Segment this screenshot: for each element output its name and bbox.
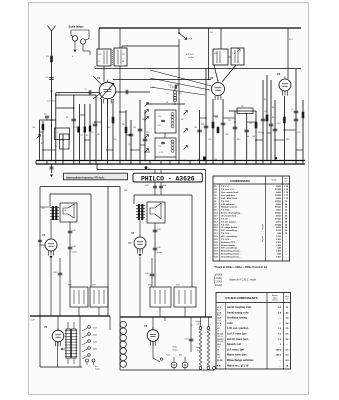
svg-text:R8: R8	[142, 119, 144, 121]
svg-text:C23: C23	[264, 111, 267, 113]
svg-text:C5-6: C5-6	[217, 320, 221, 322]
svg-text:C25: C25	[297, 132, 300, 134]
svg-text:N23: N23	[167, 355, 170, 357]
svg-text:Res: Res	[197, 350, 200, 352]
svg-text:R11: R11	[215, 117, 218, 119]
svg-text:Detector-CTZ ..: Detector-CTZ ..	[221, 241, 237, 244]
svg-text:Mains: Mains	[196, 347, 201, 349]
svg-text:Mains res., g11 10': Mains res., g11 10'	[227, 364, 249, 367]
svg-text:V4: V4	[42, 233, 46, 237]
svg-text:47643: 47643	[275, 206, 282, 209]
svg-text:Scale: Scale	[173, 347, 178, 349]
svg-text:L12-13: L12-13	[217, 339, 224, 341]
svg-text:V5: V5	[144, 324, 148, 328]
svg-text:L10: L10	[98, 54, 101, 56]
svg-text:R10: R10	[201, 124, 204, 126]
svg-text:R.B.: R.B.	[217, 365, 221, 367]
svg-text:220v: 220v	[93, 342, 97, 344]
svg-text:S4: S4	[152, 87, 154, 89]
svg-text:C.21: C.21	[159, 152, 163, 154]
svg-text:R8: R8	[272, 107, 274, 109]
svg-text:S3: S3	[41, 143, 43, 145]
svg-text:L9: L9	[217, 331, 219, 333]
svg-text:C7: C7	[98, 61, 100, 63]
svg-text:Wavechange switches: Wavechange switches	[227, 359, 254, 362]
svg-text:-0783: -0783	[275, 227, 281, 229]
svg-text:C20: C20	[158, 116, 161, 118]
svg-text:L.W. adequat ..: L.W. adequat ..	[221, 203, 237, 206]
svg-text:T.V. I.F. ..: T.V. I.F. ..	[221, 218, 230, 220]
svg-text:T.V. O.S. ..: T.V. O.S. ..	[221, 233, 232, 235]
svg-text:V2: V2	[210, 76, 214, 80]
svg-text:250v: 250v	[93, 328, 97, 330]
svg-text:T.V. O.D. ..: T.V. O.D. ..	[221, 224, 232, 226]
svg-text:K8: K8	[253, 136, 255, 138]
svg-text:R6: R6	[181, 119, 183, 121]
svg-text:C30: C30	[72, 246, 75, 248]
svg-text:C28: C28	[145, 273, 148, 275]
svg-text:V3: V3	[277, 72, 281, 76]
svg-text:C10: C10	[128, 144, 131, 146]
svg-text:CONDENSERS: CONDENSERS	[230, 179, 250, 183]
svg-text:2nd I.F. trans {sec.: 2nd I.F. trans {sec.	[227, 338, 249, 341]
svg-text:V4: V4	[131, 231, 135, 235]
svg-text:C20: C20	[225, 134, 228, 136]
svg-text:C4: C4	[166, 102, 168, 104]
svg-text:C22: C22	[249, 123, 252, 125]
svg-text:C socket: C socket	[70, 251, 77, 254]
svg-text:C30: C30	[157, 247, 160, 249]
svg-text:V5: V5	[44, 325, 48, 329]
svg-text:C.27: C.27	[157, 125, 161, 127]
svg-text:H.F. smoothing ..: H.F. smoothing ..	[221, 229, 239, 232]
svg-text:C6: C6	[97, 134, 99, 136]
svg-text:Heater limiter ..: Heater limiter ..	[221, 244, 237, 247]
svg-text:C26: C26	[72, 230, 75, 232]
svg-text:Smoothing elects. ..: Smoothing elects. ..	[221, 253, 242, 256]
svg-text:T2: T2	[217, 352, 219, 354]
svg-text:Voltage control ..: Voltage control ..	[221, 206, 239, 209]
svg-text:L8: L8	[122, 61, 124, 63]
svg-text:mains: mains	[95, 369, 100, 371]
svg-text:R6: R6	[122, 124, 124, 126]
svg-text:L4: L4	[167, 93, 169, 95]
svg-text:D13-14: D13-14	[217, 341, 223, 343]
svg-text:1st I.F. trans {pri.: 1st I.F. trans {pri.	[227, 333, 247, 336]
svg-text:C4: C4	[44, 114, 46, 116]
svg-text:L10-11: L10-11	[217, 334, 224, 336]
svg-text:Aerial tuning coils: Aerial tuning coils	[227, 311, 249, 314]
svg-text:-0008: -0008	[275, 204, 281, 206]
svg-text:S4: S4	[33, 127, 35, 129]
svg-text:200v: 200v	[93, 349, 97, 351]
svg-text:S.W., M.W. feed ..: S.W., M.W. feed ..	[221, 198, 239, 200]
svg-text:H.F. smoothing ..: H.F. smoothing ..	[221, 235, 239, 238]
svg-text:S2: S2	[92, 132, 94, 134]
svg-text:-0063: -0063	[275, 210, 281, 212]
svg-text:Oscillator tuning: Oscillator tuning	[227, 317, 247, 320]
svg-text:C9: C9	[114, 139, 116, 141]
svg-text:C24: C24	[277, 123, 280, 125]
svg-text:L9: L9	[180, 93, 182, 95]
svg-text:adjust: adjust	[197, 323, 202, 326]
svg-text:I.F. anode feed ..: I.F. anode feed ..	[221, 216, 238, 218]
svg-text:* Tuned at 500kc + 500kc + 500: * Tuned at 500kc + 500kc + 500kc from Kc…	[214, 266, 268, 269]
svg-text:R9: R9	[264, 99, 266, 101]
svg-text:R5: R5	[108, 127, 110, 129]
svg-text:-0783: -0783	[275, 221, 281, 223]
svg-text:37643: 37643	[275, 217, 282, 220]
svg-text:Smoothing elects. ..: Smoothing elects. ..	[221, 256, 242, 259]
svg-text:C11: C11	[133, 127, 136, 129]
svg-text:C.19: C.19	[170, 87, 174, 89]
svg-text:R3: R3	[81, 135, 83, 137]
svg-text:1 E43}: 1 E43}	[216, 285, 223, 287]
svg-text:R2: R2	[66, 117, 68, 119]
svg-text:T.V. O.D. ..: T.V. O.D. ..	[221, 201, 232, 203]
svg-text:R14: R14	[272, 117, 275, 119]
svg-text:C16: C16	[194, 127, 197, 129]
svg-text:Osc. padders ..: Osc. padders ..	[221, 195, 237, 197]
svg-text:coils: coils	[227, 322, 233, 325]
svg-text:140.2: 140.2	[276, 354, 282, 357]
svg-text:L.W. osc. reaction: L.W. osc. reaction	[227, 327, 249, 330]
svg-text:C17: C17	[228, 120, 231, 122]
svg-text:C33: C33	[124, 190, 127, 192]
svg-text:37643: 37643	[275, 223, 282, 226]
svg-text:F1-2: F1-2	[217, 309, 221, 311]
svg-text:R8: R8	[215, 159, 217, 161]
svg-text:tion: tion	[286, 297, 289, 300]
svg-text:C socket: C socket	[155, 251, 162, 254]
svg-text:C12: C12	[146, 132, 149, 134]
svg-text:C26: C26	[157, 229, 160, 231]
svg-text:37643: 37643	[275, 194, 282, 197]
svg-text:R4: R4	[86, 135, 88, 137]
svg-text:PHILCO - A3626: PHILCO - A3626	[141, 175, 195, 182]
svg-text:H4: H4	[247, 136, 249, 138]
svg-text:C31: C31	[163, 185, 166, 187]
svg-text:tion: tion	[285, 180, 288, 183]
svg-text:OTHER COMPONENTS: OTHER COMPONENTS	[225, 296, 257, 300]
svg-text:C7-8: C7-8	[217, 325, 221, 327]
svg-text:C41: C41	[185, 339, 188, 341]
svg-text:R15: R15	[286, 139, 289, 141]
svg-text:C19: C19	[208, 139, 211, 141]
svg-text:T.V. O.D. ..: T.V. O.D. ..	[221, 210, 232, 212]
svg-text:C5: C5	[291, 109, 293, 111]
svg-text:Smoothing elects. ..: Smoothing elects. ..	[221, 250, 242, 253]
svg-text:TS2: TS2	[217, 357, 220, 359]
svg-text:C16: C16	[197, 159, 200, 161]
svg-text:H.F. smoothing ..: H.F. smoothing ..	[221, 247, 239, 250]
svg-text:(Valves in A.C./D.C. model: (Valves in A.C./D.C. model	[229, 279, 257, 282]
svg-text:-0043: -0043	[275, 185, 281, 188]
svg-text:T.V. osc. C.C. ..: T.V. osc. C.C. ..	[221, 189, 237, 191]
svg-text:S1-S5: S1-S5	[217, 360, 223, 362]
svg-text:-0008: -0008	[275, 192, 281, 194]
svg-text:5.2: 5.2	[75, 127, 77, 129]
svg-text:T4: T4	[191, 325, 193, 327]
svg-text:Aerial coupling coils: Aerial coupling coils	[227, 306, 252, 309]
svg-text:T.V. O.S. ..: T.V. O.S. ..	[221, 239, 232, 241]
svg-text:37643: 37643	[275, 200, 282, 203]
svg-text:L.5: L.5	[55, 146, 57, 148]
svg-text:C.8: C.8	[158, 146, 161, 148]
svg-text:R.B: R.B	[189, 39, 193, 41]
svg-text:model: model	[188, 57, 194, 59]
svg-text:-0043: -0043	[275, 197, 281, 200]
svg-text:C.34: C.34	[61, 140, 65, 142]
svg-text:L4 C3 L5: L4 C3 L5	[48, 101, 57, 103]
svg-text:1 E40}: 1 E40}	[216, 275, 223, 277]
svg-text:Intermediate frequency 470 kc: Intermediate frequency 470 kc/s.	[66, 176, 105, 179]
svg-text:C32: C32	[145, 185, 148, 187]
svg-text:1 E42}: 1 E42}	[216, 282, 223, 284]
svg-text:Scale lamps: Scale lamps	[69, 25, 85, 29]
svg-text:340.6: 340.6	[276, 348, 282, 351]
svg-text:37643: 37643	[275, 212, 282, 215]
svg-text:240v: 240v	[93, 335, 97, 337]
svg-text:-0063: -0063	[275, 216, 281, 218]
svg-text:1 E41}: 1 E41}	[216, 278, 223, 280]
svg-text:Osc. anode feed ..: Osc. anode feed ..	[221, 192, 240, 194]
svg-text:(ohms): (ohms)	[272, 300, 278, 302]
svg-text:T.V. C.C. ..: T.V. C.C. ..	[221, 186, 232, 188]
svg-text:D11-12: D11-12	[217, 336, 223, 338]
svg-text:C28: C28	[53, 272, 56, 274]
svg-text:O.P. trans. {pri.: O.P. trans. {pri.	[227, 348, 245, 351]
svg-text:I.F. stage limiter ..: I.F. stage limiter ..	[221, 226, 240, 229]
svg-text:lamps: lamps	[173, 349, 178, 351]
svg-text:C8: C8	[122, 54, 124, 56]
svg-text:R12: R12	[237, 139, 240, 141]
svg-text:N24: N24	[179, 355, 182, 357]
svg-text:A.C./D.C.: A.C./D.C.	[186, 53, 195, 56]
svg-text:L.3: L.3	[56, 132, 58, 134]
svg-text:Speech coil: Speech coil	[227, 343, 241, 346]
svg-text:T.V. I.F. output ..: T.V. I.F. output ..	[221, 220, 238, 223]
svg-text:C29: C29	[31, 320, 34, 322]
svg-text:Mains trans {sec.: Mains trans {sec.	[227, 354, 248, 357]
svg-text:L15: L15	[217, 347, 220, 349]
svg-text:1A: 1A	[286, 364, 289, 367]
svg-text:R13: R13	[258, 132, 261, 134]
svg-text:V1: V1	[97, 76, 101, 80]
svg-text:A.G.C. decoupling ..: A.G.C. decoupling ..	[221, 212, 242, 215]
svg-text:37643: 37643	[275, 188, 282, 191]
